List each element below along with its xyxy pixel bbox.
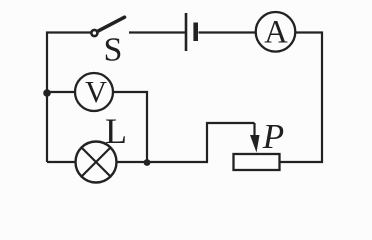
svg-text:A: A [264, 15, 288, 51]
svg-text:P: P [262, 117, 284, 156]
svg-text:L: L [105, 111, 127, 151]
svg-text:S: S [104, 31, 123, 68]
svg-text:V: V [85, 75, 107, 109]
